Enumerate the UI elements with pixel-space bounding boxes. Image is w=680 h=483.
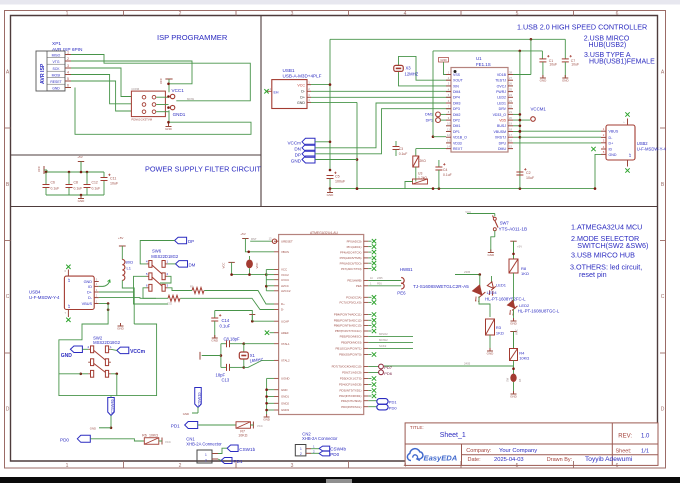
svg-text:1KΩ: 1KΩ — [496, 331, 504, 336]
svg-text:GND: GND — [297, 101, 305, 105]
wire XTAL2 — [244, 360, 274, 367]
wire USB4 D+ — [99, 292, 168, 304]
svg-text:PWRJ: PWRJ — [496, 90, 506, 94]
svg-text:UCAP: UCAP — [281, 319, 289, 323]
power flag +5V led — [510, 240, 516, 242]
svg-text:Your Company: Your Company — [499, 448, 537, 454]
wire DP — [315, 109, 451, 154]
svg-text:2025-04-03: 2025-04-03 — [494, 457, 524, 463]
svg-text:GND: GND — [291, 158, 302, 163]
wire MOSI — [71, 75, 131, 104]
net flags PD pins — [368, 378, 371, 380]
resistor R6 — [144, 438, 159, 445]
svg-text:U1: U1 — [476, 56, 482, 61]
svg-text:BUSJ: BUSJ — [497, 124, 506, 128]
svg-text:+5V: +5V — [118, 236, 123, 240]
svg-text:DN: DN — [294, 146, 301, 151]
svg-text:C: C — [661, 294, 665, 300]
ferrite bead L2 — [246, 260, 253, 269]
wire VBUS down path — [59, 304, 157, 396]
no-connect USB4 EP top — [67, 270, 69, 277]
wire VBUS USB2 — [520, 130, 601, 132]
wire PE2 HWB — [368, 280, 401, 282]
svg-text:1.ATMEGA32U4 MCU: 1.ATMEGA32U4 MCU — [571, 223, 642, 232]
svg-text:VSS: VSS — [453, 73, 461, 77]
taskbar bottom strip — [0, 477, 680, 483]
svg-text:C6: C6 — [51, 181, 55, 185]
wire filter top rail — [46, 171, 104, 173]
svg-text:PD0: PD0 — [60, 438, 69, 443]
svg-text:GND: GND — [165, 127, 173, 131]
svg-text:0.1uF: 0.1uF — [399, 152, 408, 156]
wire USB4 ID arc — [99, 280, 110, 286]
svg-text:RESET: RESET — [50, 80, 61, 84]
svg-text:6: 6 — [616, 463, 619, 469]
svg-text:XTAL1: XTAL1 — [281, 342, 290, 346]
wire SW6 pin5 — [134, 276, 147, 292]
svg-text:3: 3 — [67, 64, 69, 68]
svg-text:VCC: VCC — [257, 424, 263, 428]
net port VCC1 — [170, 94, 174, 98]
svg-text:5: 5 — [516, 463, 519, 469]
svg-text:C2: C2 — [526, 171, 531, 175]
svg-text:XOUT: XOUT — [453, 79, 464, 83]
svg-text:PB7(PCINT7/OC1C): PB7(PCINT7/OC1C) — [335, 329, 362, 333]
capacitor C8x — [221, 343, 227, 345]
svg-text:PD0: PD0 — [389, 406, 398, 411]
svg-text:VCC: VCC — [222, 263, 226, 269]
svg-text:EP: EP — [67, 304, 71, 308]
svg-text:SW7: SW7 — [500, 221, 510, 226]
capacitor C12 — [86, 172, 88, 185]
svg-text:D-: D- — [281, 308, 284, 312]
wire MOSI — [368, 341, 413, 343]
svg-text:LED2: LED2 — [497, 96, 506, 100]
svg-text:VBUS: VBUS — [609, 130, 619, 134]
wire PE6 — [368, 285, 401, 287]
svg-text:PF7(ADC7/TDI): PF7(ADC7/TDI) — [341, 267, 361, 271]
wire USB2 GND — [595, 154, 601, 188]
svg-text:10uF: 10uF — [549, 62, 557, 66]
svg-text:USB4: USB4 — [29, 290, 41, 295]
svg-text:PD5(XCK1/CTS): PD5(XCK1/CTS) — [340, 377, 362, 381]
svg-text:AREF: AREF — [281, 331, 289, 335]
svg-text:1B: 1B — [518, 379, 522, 382]
net tag CSW1b cn1 — [227, 445, 238, 452]
svg-text:Sheet:: Sheet: — [616, 449, 632, 455]
svg-text:GND: GND — [52, 86, 60, 90]
svg-text:1/1: 1/1 — [641, 449, 649, 455]
svg-text:VD1B: VD1B — [497, 73, 507, 77]
connector USB2 — [606, 125, 635, 160]
svg-text:Drawn By:: Drawn By: — [547, 457, 573, 463]
capacitor C3 — [395, 141, 397, 147]
svg-text:+5V: +5V — [77, 155, 82, 159]
net tag PD0 cn2 — [319, 451, 330, 456]
svg-text:80Ω: 80Ω — [126, 260, 133, 265]
svg-text:XIN: XIN — [453, 84, 459, 88]
svg-text:ICSW4b: ICSW4b — [110, 398, 115, 414]
wire XTAL1 — [244, 343, 274, 345]
svg-text:C13: C13 — [222, 378, 230, 383]
svg-text:3.USB MIRCO HUB: 3.USB MIRCO HUB — [571, 250, 635, 259]
svg-text:6: 6 — [616, 11, 619, 17]
svg-text:GND: GND — [117, 326, 125, 330]
svg-text:PB4(PCINT4/ADC11): PB4(PCINT4/ADC11) — [334, 313, 362, 317]
svg-text:SWITCH(SW2 &SW6): SWITCH(SW2 &SW6) — [577, 241, 648, 250]
svg-text:XRSTJ: XRSTJ — [495, 136, 506, 140]
ground button — [513, 382, 515, 394]
svg-text:DRV: DRV — [499, 107, 507, 111]
wire DP to SW6 — [140, 241, 174, 264]
resistor R7 — [236, 422, 251, 429]
ground SW7 — [490, 250, 492, 253]
wire R8 to LED2 — [513, 273, 515, 302]
svg-text:2: 2 — [67, 57, 69, 61]
svg-text:3: 3 — [291, 11, 294, 17]
no-connect AREF — [265, 331, 269, 335]
ground CSW4b — [99, 427, 111, 429]
svg-text:2405: 2405 — [464, 362, 471, 366]
wire SW6 pin1 to DM — [168, 263, 176, 265]
svg-text:10KΩ: 10KΩ — [238, 433, 247, 437]
svg-text:AVCC2: AVCC2 — [281, 289, 291, 293]
pin PE6 — [401, 283, 404, 289]
svg-text:PD7(T0/OC4D/ADC10): PD7(T0/OC4D/ADC10) — [332, 365, 362, 369]
svg-text:C4: C4 — [443, 168, 447, 172]
svg-text:YTS-A011-1B: YTS-A011-1B — [499, 226, 528, 231]
svg-text:10uF: 10uF — [526, 176, 535, 180]
svg-text:EP: EP — [67, 278, 71, 282]
svg-text:MSS22D18G2: MSS22D18G2 — [93, 340, 121, 345]
svg-text:PF4(ADC4/TCK): PF4(ADC4/TCK) — [340, 250, 362, 254]
svg-text:R6: R6 — [142, 434, 147, 438]
svg-text:TESTJ: TESTJ — [495, 79, 506, 83]
net tag CSW4b cn2 — [319, 446, 330, 451]
title block — [405, 423, 658, 466]
ground usb4 area — [120, 324, 122, 326]
net tag PD0 right — [368, 406, 377, 408]
svg-text:XP1: XP1 — [52, 41, 61, 47]
ground of filter — [80, 195, 82, 199]
svg-text:+5V: +5V — [517, 245, 522, 249]
svg-text:0.1uF: 0.1uF — [74, 187, 83, 191]
svg-text:VCC: VCC — [165, 440, 171, 444]
svg-text:D+: D+ — [281, 302, 285, 306]
svg-text:CON6: CON6 — [131, 87, 139, 91]
svg-text:DP4: DP4 — [453, 96, 460, 100]
svg-text:1.USB 2.0 HIGH SPEED CONTROLLE: 1.USB 2.0 HIGH SPEED CONTROLLER — [517, 22, 647, 31]
svg-text:GND: GND — [84, 280, 93, 284]
svg-text:VCC: VCC — [37, 166, 41, 172]
wire SCK — [368, 347, 413, 349]
svg-text:6: 6 — [67, 84, 69, 88]
svg-text:MISO: MISO — [52, 53, 61, 57]
ground hub rail — [329, 189, 331, 193]
section box ISP programmer — [11, 16, 262, 207]
svg-text:D+: D+ — [300, 96, 305, 100]
wire USB4 VBUS — [99, 303, 108, 305]
svg-text:VCCM1: VCCM1 — [531, 107, 547, 112]
svg-text:VD1B_O: VD1B_O — [453, 136, 467, 140]
wire PD1 to R7 — [198, 424, 236, 426]
svg-text:PB6(PCINT6/ADC13): PB6(PCINT6/ADC13) — [334, 324, 362, 328]
wire MISO — [368, 335, 413, 337]
resistor R10 vertical — [416, 148, 446, 150]
svg-text:VCC: VCC — [281, 268, 287, 272]
svg-text:DP: DP — [295, 152, 301, 157]
capacitor C1 — [541, 51, 543, 59]
resistor R1 22ohm — [192, 288, 204, 294]
svg-text:MISO2: MISO2 — [379, 332, 388, 336]
wire cn2 pins — [311, 448, 319, 450]
svg-text:PB5(PCINT5/ADC12): PB5(PCINT5/ADC12) — [334, 319, 362, 323]
wire MISO — [71, 55, 250, 101]
svg-text:R3: R3 — [496, 325, 502, 330]
svg-text:2305: 2305 — [464, 270, 471, 274]
wire +5V top rail — [330, 38, 565, 40]
svg-text:1.2kΩ: 1.2kΩ — [418, 176, 427, 180]
resistor R4 — [510, 349, 518, 361]
svg-text:GND: GND — [183, 412, 189, 416]
section divider power filter bottom — [11, 206, 658, 208]
svg-text:L1: L1 — [127, 266, 132, 271]
svg-text:URESET: URESET — [281, 239, 293, 243]
svg-text:Date:: Date: — [468, 457, 482, 463]
svg-text:Company:: Company: — [466, 448, 492, 454]
svg-text:GND: GND — [61, 353, 72, 359]
svg-text:XHB-2A Connector: XHB-2A Connector — [302, 436, 338, 441]
svg-text:CSW1b: CSW1b — [239, 447, 255, 452]
svg-text:2KΩ: 2KΩ — [420, 159, 427, 163]
svg-text:PD6(T1/ADC9): PD6(T1/ADC9) — [342, 371, 361, 375]
svg-text:DMU: DMU — [498, 147, 506, 151]
svg-text:PE2(HWB): PE2(HWB) — [347, 279, 361, 283]
svg-text:PD1: PD1 — [389, 400, 398, 405]
svg-text:GND: GND — [540, 78, 548, 82]
wire UGND — [267, 377, 274, 379]
svg-text:22Ω: 22Ω — [167, 302, 172, 306]
svg-text:D: D — [6, 407, 10, 413]
svg-text:LED4: LED4 — [487, 290, 498, 295]
net tag PD1 right — [368, 400, 377, 402]
svg-text:VD5: VD5 — [499, 119, 506, 123]
svg-text:PC7(ICP3/CLK0): PC7(ICP3/CLK0) — [339, 301, 361, 305]
svg-text:XTAL2: XTAL2 — [281, 359, 290, 363]
resistor R8 — [509, 259, 518, 273]
svg-text:ID: ID — [88, 285, 92, 289]
net flags PF pins — [368, 240, 371, 242]
frame row ticks left — [5, 127, 11, 129]
svg-text:VCC: VCC — [297, 83, 305, 87]
svg-text:DM3: DM3 — [453, 101, 460, 105]
svg-text:OVCJ: OVCJ — [497, 84, 507, 88]
wire GND pins mcu — [267, 389, 274, 391]
svg-text:AVR ISP: AVR ISP — [40, 63, 46, 84]
svg-text:AVCC: AVCC — [281, 284, 289, 288]
svg-text:GND: GND — [510, 321, 518, 325]
svg-text:DM1: DM1 — [453, 124, 460, 128]
wire RESET — [71, 81, 131, 111]
svg-text:2: 2 — [179, 11, 182, 17]
svg-text:GND: GND — [609, 153, 617, 157]
svg-text:0.1uF: 0.1uF — [51, 187, 60, 191]
svg-text:VD33: VD33 — [453, 141, 462, 145]
svg-text:2: 2 — [179, 463, 182, 469]
svg-text:R1: R1 — [190, 285, 194, 289]
svg-text:PDN60 2X3TVM: PDN60 2X3TVM — [131, 118, 152, 122]
wire USB1 D+ to DP4 — [311, 96, 451, 98]
svg-text:U-F-MSDW-Y-4: U-F-MSDW-Y-4 — [29, 295, 60, 300]
svg-text:USB2: USB2 — [637, 141, 649, 146]
svg-text:GND2: GND2 — [281, 402, 289, 406]
svg-text:HL-PT-1608Y52FC-L: HL-PT-1608Y52FC-L — [485, 297, 526, 302]
svg-text:SCK: SCK — [53, 67, 61, 71]
svg-text:C14: C14 — [222, 318, 230, 323]
svg-text:PD3(INT3/TXD1): PD3(INT3/TXD1) — [339, 389, 361, 393]
svg-text:TJ-S1608SWETGLC2R-A5: TJ-S1608SWETGLC2R-A5 — [413, 284, 469, 289]
svg-text:0.1uF: 0.1uF — [220, 324, 231, 329]
svg-text:USB-A-M3D+4PLF: USB-A-M3D+4PLF — [283, 74, 322, 79]
svg-text:VBUS: VBUS — [281, 250, 289, 254]
svg-text:UVCC: UVCC — [281, 278, 289, 282]
svg-text:GND: GND — [211, 338, 219, 342]
svg-text:GND1: GND1 — [281, 395, 289, 399]
ground LED2 — [513, 310, 515, 322]
svg-text:100uF: 100uF — [335, 180, 346, 184]
svg-text:FE1.1S: FE1.1S — [476, 62, 491, 67]
svg-text:LED1: LED1 — [496, 283, 507, 288]
svg-text:X3: X3 — [406, 66, 412, 71]
svg-text:PB3(PDO/MISO): PB3(PDO/MISO) — [340, 335, 362, 339]
svg-text:HUB(USB1)FEMALE: HUB(USB1)FEMALE — [589, 59, 655, 66]
svg-text:VCC1: VCC1 — [172, 88, 185, 93]
wire USB1 D- to DM4 — [311, 90, 451, 92]
capacitor C6 — [45, 172, 47, 185]
svg-text:DM4: DM4 — [453, 90, 460, 94]
wire CSW4b down — [110, 416, 112, 428]
no-connect USB4 EP bottom — [67, 310, 69, 318]
svg-text:VCC2: VCC2 — [281, 273, 289, 277]
wire PD0 to R6 — [90, 439, 144, 441]
svg-text:1: 1 — [66, 11, 69, 17]
wire second top rail — [530, 39, 532, 74]
wire L1 bottom — [122, 280, 134, 324]
resistor U3 1.2k — [415, 167, 417, 182]
svg-text:1: 1 — [300, 447, 302, 451]
svg-text:GND: GND — [440, 58, 446, 62]
wire cn1 pin1 — [218, 448, 227, 453]
svg-text:DP3: DP3 — [453, 107, 460, 111]
svg-text:VBUSM: VBUSM — [494, 130, 507, 134]
net port PD7 — [368, 366, 378, 368]
svg-text:2305: 2305 — [377, 277, 383, 280]
svg-text:Sheet_1: Sheet_1 — [440, 432, 466, 439]
no-connect USB2 ID — [591, 147, 595, 151]
svg-text:CSW1b: CSW1b — [197, 391, 202, 406]
wire USB1 VCC — [311, 84, 330, 86]
svg-text:RST: RST — [251, 237, 257, 241]
capacitor C5 — [329, 169, 332, 172]
svg-text:PD6: PD6 — [384, 371, 393, 376]
net flags PC pins — [368, 296, 371, 298]
net flags PB pins — [368, 314, 371, 316]
svg-text:C: C — [6, 294, 10, 300]
svg-text:PD0: PD0 — [330, 452, 339, 457]
net tag CSW1b vertical — [195, 388, 202, 408]
led LED2 — [504, 301, 520, 317]
svg-text:DP: DP — [188, 239, 194, 244]
crystal X3 — [399, 56, 452, 80]
svg-text:PF5(ADC5/TMS): PF5(ADC5/TMS) — [340, 256, 362, 260]
svg-text:PD1: PD1 — [171, 423, 180, 428]
svg-text:+5V: +5V — [240, 232, 245, 236]
svg-text:CSW4b: CSW4b — [330, 446, 346, 451]
net port GND1 — [167, 106, 170, 109]
svg-text:0.1uF: 0.1uF — [443, 173, 452, 177]
svg-text:GND: GND — [487, 253, 495, 257]
svg-text:U3: U3 — [418, 172, 422, 176]
svg-text:10KΩ: 10KΩ — [149, 434, 158, 438]
wire VTG — [71, 61, 192, 84]
wire D+ mcu — [204, 291, 274, 305]
ground C14 — [214, 335, 216, 338]
svg-text:GND: GND — [263, 417, 271, 421]
wire VD1B_O — [433, 136, 446, 138]
led LED4 — [469, 285, 488, 303]
svg-text:C11: C11 — [110, 177, 116, 181]
svg-text:LED2: LED2 — [519, 303, 530, 308]
wire VCC rail mcu — [232, 274, 267, 276]
svg-text:GND: GND — [510, 394, 518, 398]
capacitor C4 — [438, 160, 440, 167]
svg-text:D+: D+ — [87, 291, 93, 295]
logo EasyEDA — [407, 449, 423, 461]
svg-text:EasyEDA: EasyEDA — [424, 453, 458, 462]
svg-text:4: 4 — [404, 11, 407, 17]
svg-text:2: 2 — [205, 459, 207, 463]
svg-text:C8 18pF: C8 18pF — [224, 337, 241, 342]
svg-text:10KΩ: 10KΩ — [519, 356, 529, 361]
net flag PB0 — [368, 354, 371, 356]
svg-text:1: 1 — [205, 453, 207, 457]
wire SCK — [71, 68, 131, 97]
capacitor C7 — [564, 39, 566, 59]
wire led top — [455, 274, 480, 276]
svg-text:PF1(ADC1): PF1(ADC1) — [347, 245, 362, 249]
svg-text:U-F-MSDW-Y-4: U-F-MSDW-Y-4 — [637, 146, 667, 151]
svg-text:EH: EH — [274, 90, 279, 94]
svg-text:VCC: VCC — [515, 329, 519, 335]
wire SW2 bottom pins — [81, 373, 89, 375]
svg-text:GND1: GND1 — [173, 112, 186, 117]
capacitor C11 — [103, 172, 105, 178]
svg-text:MOSI: MOSI — [52, 73, 61, 77]
svg-text:USB1: USB1 — [283, 68, 295, 73]
ground mcu — [266, 414, 268, 417]
capacitor C13 — [221, 366, 227, 368]
wire cn1 pin2 — [218, 459, 221, 461]
svg-text:XHB-2A Connector: XHB-2A Connector — [186, 441, 222, 446]
wire LED4 to R3 — [479, 297, 490, 318]
wire DMU to USB2 — [520, 136, 601, 138]
svg-text:GND: GND — [562, 78, 570, 82]
frame column ticks top — [123, 11, 125, 16]
svg-text:PD2(INT2/RXD1): PD2(INT2/RXD1) — [339, 394, 361, 398]
svg-text:DPU: DPU — [499, 141, 507, 145]
resistor R2 22ohm — [168, 295, 180, 301]
net tag DM — [176, 261, 188, 268]
